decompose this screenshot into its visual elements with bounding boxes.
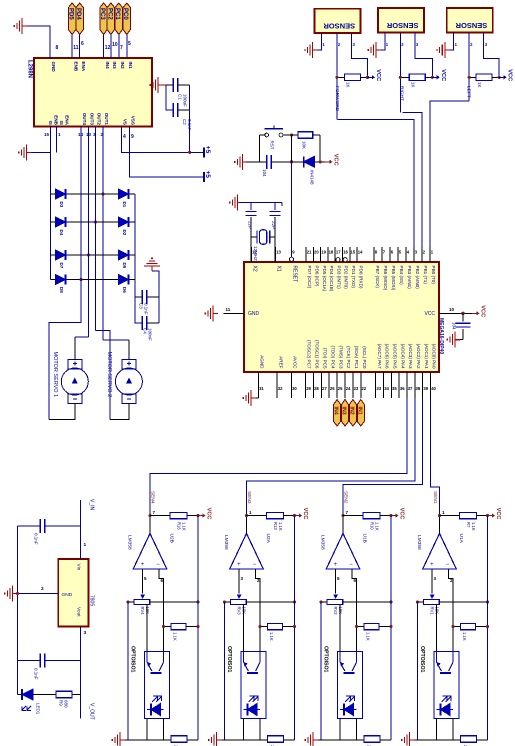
pull-up resistor R13 1.1K: [247, 515, 267, 517]
svg-text:D5: D5: [122, 263, 127, 269]
svg-text:D1: D1: [122, 202, 127, 208]
MCU pin 36 (ADC4) PA4: [398, 372, 400, 398]
opto leads channel 1: [146, 719, 148, 740]
svg-text:PC0: PC0: [122, 8, 128, 20]
MCU pin 7 PB6 (MISO): [381, 247, 383, 262]
MCU pin 3 PB2 (AIN0): [413, 247, 415, 262]
svg-text:OUT3: OUT3: [90, 113, 95, 126]
svg-text:6: 6: [391, 250, 394, 255]
svg-text:PD4: PD4: [75, 8, 81, 20]
svg-text:(ADC7) PA7: (ADC7) PA7: [377, 344, 382, 369]
svg-text:(ADC5) PA5: (ADC5) PA5: [393, 344, 398, 369]
svg-text:(TDI) PC5: (TDI) PC5: [323, 348, 328, 369]
svg-text:2: 2: [401, 42, 404, 47]
svg-text:(ADC2) PA2: (ADC2) PA2: [416, 344, 421, 369]
MCU pin 21 PD7 (OC2): [305, 247, 307, 262]
svg-text:PB5 (MOSI): PB5 (MOSI): [391, 266, 396, 291]
svg-text:R16: R16: [177, 522, 182, 530]
motor driver U? L298N body: [34, 58, 152, 127]
feedback resistor 1.1K channel 3: [357, 626, 365, 628]
svg-text:VCC: VCC: [507, 69, 513, 81]
input capacitor 0.1nF: [45, 525, 81, 527]
svg-text:3: 3: [416, 42, 419, 47]
wire pot to opto channel 4: [436, 604, 438, 651]
junction row 1: [101, 192, 104, 195]
diode D8: [56, 275, 66, 285]
svg-text:1: 1: [442, 510, 445, 515]
svg-text:12: 12: [105, 45, 111, 51]
flag IN2 at PC1: [349, 400, 356, 427]
bottom wire channel 1: [123, 739, 171, 741]
MCU pin 18 PD4 (OC1B): [327, 247, 329, 262]
wire IS ENB pin 15 to ground: [32, 151, 51, 153]
svg-text:3: 3: [353, 42, 356, 47]
pull-up resistor R16 1.1K: [150, 515, 170, 517]
svg-text:AVCC: AVCC: [293, 356, 298, 369]
svg-text:VCC: VCC: [206, 508, 212, 520]
svg-text:17: 17: [336, 250, 341, 255]
MCU pin 14 PD0 (RXD): [356, 247, 358, 262]
svg-text:GND: GND: [248, 311, 260, 317]
wire PD4 to ENA pin 6: [79, 35, 81, 59]
svg-text:2: 2: [423, 250, 426, 255]
regulator 7805 body: [58, 559, 88, 627]
wire diode row 2: [51, 221, 136, 223]
op-amp U2B LM358: [133, 533, 167, 569]
MCU pin 37 (ADC3) PA3: [406, 372, 408, 398]
minus input wire channel 1: [159, 569, 164, 651]
svg-text:RIGHT: RIGHT: [399, 86, 405, 101]
capacitor 22P at X2: [250, 203, 252, 210]
wire OUT4 vertical: [80, 127, 82, 280]
svg-text:1K: 1K: [346, 82, 351, 88]
svg-text:4: 4: [123, 134, 126, 140]
op-amp U1B LM358: [326, 533, 360, 569]
SENSOR1 pin3 wire to VCC node: [352, 33, 368, 77]
svg-text:MOTOR SERVO 1: MOTOR SERVO 1: [52, 352, 58, 398]
MCU pin 8 PB7 (SCK): [373, 247, 375, 262]
wire OUT4 loop to motor1 minus: [49, 280, 81, 420]
left rail channel 3: [320, 602, 322, 740]
SENSOR3 pin2 output wire: [468, 32, 470, 101]
right rail channel 1: [197, 516, 199, 740]
svg-text:LM358: LM358: [223, 535, 229, 550]
svg-text:PC1: PC1: [114, 8, 120, 20]
svg-text:RV2: RV2: [333, 607, 338, 616]
diode D1: [119, 189, 129, 199]
opto sensor OPTOBIO1 channel 4: [434, 651, 459, 718]
opto leads channel 4: [436, 719, 438, 740]
wire C1/C2 right rail down to +5 node: [189, 85, 191, 152]
svg-text:OUT1: OUT1: [104, 113, 109, 126]
pull-up resistor 1K SENSOR2: [400, 76, 409, 78]
junction row 4: [79, 278, 82, 281]
pull-up resistor R10 1.1K: [343, 515, 363, 517]
power +5 arrow (VSS): [204, 171, 211, 183]
svg-text:28: 28: [314, 386, 319, 391]
svg-text:MOTOR SERVO 2: MOTOR SERVO 2: [106, 352, 112, 398]
svg-text:(TOSC2) PC7: (TOSC2) PC7: [307, 340, 312, 369]
svg-text:−: −: [446, 562, 450, 568]
svg-text:PD6 (ICP): PD6 (ICP): [315, 266, 320, 287]
svg-text:VS: VS: [123, 119, 128, 125]
svg-text:0.1nF: 0.1nF: [34, 668, 39, 680]
MCU pin 17 PD3 (INT1): [334, 247, 336, 262]
wire PC3 to IN4 pin 12: [103, 35, 105, 59]
wire VS pin 4 to +5: [122, 127, 205, 153]
svg-text:24: 24: [346, 386, 351, 391]
svg-text:7805: 7805: [89, 595, 95, 606]
wire ground to C1/C2 left node: [163, 84, 166, 86]
wire PC1 to IN2 pin 7: [118, 35, 120, 59]
svg-text:35: 35: [392, 386, 397, 391]
svg-text:6: 6: [81, 41, 84, 47]
svg-text:2: 2: [41, 586, 44, 592]
svg-text:SEN4: SEN4: [150, 491, 156, 504]
svg-text:ENB: ENB: [73, 62, 78, 72]
ground at reset cap: [235, 154, 248, 170]
ground channel 4: [402, 732, 415, 746]
MCU pin 34 (ADC6) PA6: [383, 372, 385, 398]
svg-text:LED1: LED1: [36, 703, 41, 715]
svg-text:12MHZ: 12MHZ: [253, 246, 258, 261]
svg-text:Vout: Vout: [76, 607, 82, 617]
wire OUT3 vertical: [88, 127, 90, 338]
trimmer wires channel 2: [225, 601, 231, 603]
svg-text:OPTOISO1: OPTOISO1: [419, 646, 425, 673]
wire PC2 to IN3 pin 10: [110, 35, 112, 59]
ground at MCU AGND pin 31: [256, 397, 258, 399]
MCU pin 33 (ADC7) PA7: [375, 372, 377, 398]
svg-text:−: −: [349, 562, 353, 568]
connector flag PC2: [107, 3, 114, 35]
MCU pin 13 X1: [275, 247, 277, 262]
sensor module SENSOR1 body: [315, 9, 361, 33]
capacitor C3 0.1nF: [135, 296, 142, 298]
svg-text:RST: RST: [270, 141, 275, 150]
svg-text:(ADC1) PA1: (ADC1) PA1: [424, 344, 429, 369]
svg-text:C2: C2: [182, 119, 187, 125]
wire OUT2 loop to motor2 minus: [96, 330, 111, 419]
microcontroller U? MEGA16-DIP40 body: [244, 262, 439, 372]
svg-text:IN4148: IN4148: [309, 170, 314, 185]
minus input wire channel 3: [352, 569, 357, 651]
ground at crystal caps: [230, 195, 243, 211]
svg-text:27: 27: [322, 386, 327, 391]
svg-text:(ADC3) PA3: (ADC3) PA3: [408, 344, 413, 369]
bottom wire channel 2: [220, 739, 268, 741]
svg-text:ENB: ENB: [54, 115, 59, 125]
svg-text:16: 16: [343, 250, 348, 255]
svg-text:VCC: VCC: [333, 154, 339, 166]
MCU pin 35 (ADC5) PA5: [390, 372, 392, 398]
diode matrix left bus wire: [50, 152, 52, 279]
svg-text:−: −: [156, 562, 160, 568]
SENSOR3 pin1 wire to ground: [450, 32, 454, 50]
op-amp U1A LM358: [423, 533, 457, 569]
svg-text:LEFT: LEFT: [466, 86, 472, 98]
svg-text:IN3: IN3: [112, 62, 117, 70]
op-amp U2A LM358: [230, 533, 264, 569]
right rail channel 3: [390, 516, 392, 740]
svg-text:33: 33: [376, 386, 381, 391]
opto leads channel 3: [339, 719, 341, 740]
left rail channel 4: [417, 602, 419, 740]
diode D2: [119, 217, 129, 227]
svg-text:D3: D3: [59, 202, 64, 208]
svg-text:37: 37: [408, 386, 413, 391]
MCU pin 2 PB1 (T1): [421, 247, 423, 262]
opto sensor OPTOBIO1 channel 1: [145, 651, 170, 718]
svg-text:36: 36: [400, 386, 405, 391]
minus input wire channel 2: [255, 569, 260, 651]
svg-text:1: 1: [84, 542, 87, 548]
svg-text:IS: IS: [59, 121, 64, 125]
svg-text:26: 26: [330, 386, 335, 391]
svg-text:104: 104: [452, 322, 457, 330]
svg-text:38: 38: [416, 386, 421, 391]
svg-text:7: 7: [153, 510, 156, 515]
svg-text:PC3: PC3: [99, 8, 105, 20]
svg-text:RESET: RESET: [292, 266, 298, 283]
power LED1: [18, 694, 23, 696]
svg-text:13: 13: [86, 132, 92, 137]
wire PD5 to ENB pin 11: [71, 35, 73, 59]
svg-text:IS: IS: [48, 121, 53, 125]
port V_IN: [80, 500, 82, 559]
svg-text:1K: 1K: [410, 82, 415, 88]
power VCC arrow channel 3: [391, 508, 405, 520]
svg-text:U1A: U1A: [458, 534, 464, 544]
svg-text:680: 680: [64, 700, 69, 708]
power VCC arrow SENSOR1: [368, 69, 382, 81]
diode matrix right bus wire: [134, 194, 136, 297]
svg-text:22P: 22P: [271, 221, 276, 229]
svg-text:PB4 (SS): PB4 (SS): [399, 266, 404, 286]
svg-text:25: 25: [338, 386, 343, 391]
svg-text:L298N: L298N: [27, 60, 33, 78]
svg-text:C4: C4: [143, 328, 148, 334]
pull-up resistor 1K SENSOR3: [469, 76, 476, 78]
svg-text:VCC: VCC: [302, 508, 308, 520]
wire pot to opto channel 1: [146, 604, 148, 651]
bottom wire channel 3: [316, 739, 364, 741]
wire output to node channel 2: [246, 516, 248, 534]
wire MCU PA to channel 3: [343, 398, 423, 516]
wire OUT1 to motor2 plus: [103, 339, 129, 341]
svg-text:LM358: LM358: [127, 535, 133, 550]
plus input wire channel 2: [238, 569, 240, 594]
svg-text:−: −: [253, 562, 257, 568]
MCU pin 39 (ADC1) PA1: [422, 372, 424, 398]
feedback resistor 1.1K channel 4: [453, 626, 461, 628]
svg-text:3: 3: [84, 630, 87, 636]
svg-text:VCC: VCC: [480, 305, 486, 317]
capacitor C? 104 at MCU VCC: [461, 312, 464, 315]
svg-text:GND: GND: [62, 592, 73, 598]
wire output to node channel 3: [342, 516, 344, 534]
diode D4: [56, 217, 66, 227]
svg-text:+: +: [430, 562, 434, 568]
svg-text:10: 10: [112, 42, 118, 48]
svg-text:OPTOISO1: OPTOISO1: [130, 646, 136, 673]
svg-text:20: 20: [314, 250, 319, 255]
svg-text:10K: 10K: [301, 141, 306, 149]
svg-text:3: 3: [485, 42, 488, 47]
wire output to node channel 1: [149, 516, 151, 534]
svg-text:GND: GND: [51, 62, 56, 73]
svg-text:+: +: [334, 562, 338, 568]
wire MCU PA to channel 4: [431, 398, 440, 516]
minus input wire channel 4: [448, 569, 453, 651]
svg-text:(ADC4) PA4: (ADC4) PA4: [400, 344, 405, 369]
svg-text:X1: X1: [276, 266, 282, 272]
ground at L298N GND pin 8: [14, 18, 27, 34]
junction row 2: [94, 220, 97, 223]
svg-text:1: 1: [249, 510, 252, 515]
svg-text:ENA: ENA: [65, 115, 70, 125]
svg-text:1.1K: 1.1K: [269, 632, 274, 641]
svg-text:23: 23: [354, 386, 359, 391]
svg-text:3: 3: [241, 576, 244, 581]
junction row 3: [87, 253, 90, 256]
svg-text:1.1K: 1.1K: [462, 632, 467, 641]
wire ground to C3/C4 right rail: [152, 271, 159, 323]
SENSOR1 pin2 output wire: [336, 33, 338, 119]
wire MCU VCC pin 10 to VCC: [439, 312, 472, 314]
trimmer RV4 10K: [140, 594, 145, 599]
MCU pin 16 PD2 (INT0): [342, 247, 344, 262]
MCU pin 15 PD1 (TXD): [349, 247, 351, 262]
MCU pin 24 (TCK) PC2: [344, 372, 346, 398]
svg-text:14: 14: [358, 250, 363, 255]
svg-text:(TOSC1) PC6: (TOSC1) PC6: [315, 340, 320, 369]
right rail channel 4: [487, 516, 489, 740]
svg-text:3: 3: [434, 576, 437, 581]
svg-text:22P: 22P: [247, 221, 252, 229]
power +5 arrow (VS): [204, 146, 211, 158]
svg-text:MEGA16-DIP40: MEGA16-DIP40: [438, 318, 444, 354]
power VCC arrow channel 2: [295, 508, 309, 520]
wire diode row 4: [51, 279, 136, 281]
wire FORWORD to PB2: [338, 119, 415, 247]
wire OUT3 to motor1 plus: [75, 336, 89, 338]
svg-text:(ADC0) PA0: (ADC0) PA0: [432, 344, 437, 369]
svg-text:1K: 1K: [477, 82, 482, 88]
wire reset bottom path: [246, 161, 267, 163]
ground at SENSOR3: [437, 42, 450, 58]
svg-text:VSS: VSS: [131, 116, 136, 125]
svg-text:(SDA) PC1: (SDA) PC1: [354, 346, 359, 369]
svg-text:D6: D6: [122, 287, 127, 293]
ground at 7805 GND pin 2: [18, 593, 59, 595]
wire pot to opto channel 2: [243, 604, 245, 651]
ground channel 3: [305, 732, 318, 746]
trimmer RV2 10K: [333, 594, 338, 599]
wire OUT2 vertical: [95, 127, 97, 331]
svg-text:PB0 (T0): PB0 (T0): [431, 266, 436, 285]
svg-text:V_IN: V_IN: [89, 499, 95, 511]
MCU pin 19 PD5 (OC1A): [320, 247, 322, 262]
svg-text:VCC: VCC: [440, 69, 446, 81]
LED series resistor channel 3: [364, 736, 380, 742]
SENSOR2 pin1 wire to ground: [381, 32, 385, 50]
wire ground rail to caps: [240, 202, 282, 204]
svg-text:1.1K: 1.1K: [471, 522, 476, 531]
diode D6: [119, 275, 129, 285]
svg-text:PD5 (OC1A): PD5 (OC1A): [322, 266, 327, 292]
svg-text:+: +: [237, 562, 241, 568]
svg-text:PC2: PC2: [106, 8, 112, 20]
MCU pin 5 PB4 (SS): [397, 247, 399, 262]
svg-text:U2B: U2B: [169, 534, 175, 543]
svg-text:IN4: IN4: [333, 407, 339, 415]
svg-text:R9: R9: [59, 700, 64, 706]
svg-text:PB6 (MISO): PB6 (MISO): [383, 266, 388, 291]
svg-text:7: 7: [346, 510, 349, 515]
left rail regulator: [17, 526, 19, 695]
ground channel 1: [112, 732, 125, 746]
svg-text:+5: +5: [204, 171, 211, 179]
diode IN4148: [304, 156, 315, 167]
svg-text:R7: R7: [466, 522, 471, 528]
svg-text:PD0 (RXD): PD0 (RXD): [358, 266, 363, 289]
capacitor 104 reset: [267, 155, 271, 169]
MCU pin 28 (TOSC1) PC6: [312, 372, 314, 398]
ground at L298N sense pins: [19, 144, 32, 160]
sensor module SENSOR2 body: [378, 8, 424, 32]
ground at MCU GND pin 11: [224, 313, 245, 315]
ground at SENSOR1: [305, 42, 318, 58]
svg-text:ENA: ENA: [81, 62, 86, 72]
svg-text:AREF: AREF: [278, 356, 283, 368]
flag IN3 at PC2: [342, 400, 349, 427]
svg-text:SEN3: SEN3: [246, 491, 252, 504]
svg-text:D7: D7: [59, 263, 64, 269]
svg-text:10: 10: [449, 307, 455, 312]
svg-text:PD4 (OC1B): PD4 (OC1B): [329, 266, 334, 292]
svg-text:5: 5: [399, 250, 402, 255]
svg-text:RV1: RV1: [430, 607, 435, 616]
svg-text:PD5: PD5: [68, 8, 74, 20]
push button switch RST: [259, 135, 261, 162]
capacitor C4 100nF: [135, 297, 142, 323]
output capacitor 0.1nF: [18, 660, 41, 662]
svg-text:D2: D2: [122, 230, 127, 236]
svg-text:C3: C3: [139, 303, 144, 309]
svg-text:(TCK) PC2: (TCK) PC2: [346, 346, 351, 369]
svg-text:31: 31: [259, 386, 264, 391]
svg-text:1: 1: [455, 42, 458, 47]
SENSOR1 pin1 wire to ground: [318, 33, 322, 50]
svg-text:1: 1: [386, 42, 389, 47]
svg-text:3: 3: [415, 250, 418, 255]
wire PC0 to IN1 pin 5: [126, 35, 128, 59]
svg-text:VCC: VCC: [375, 69, 381, 81]
MCU pin 1 PB0 (T0): [429, 247, 431, 262]
bottom wire channel 4: [413, 739, 461, 741]
SENSOR3 pin3 wire to VCC node: [484, 32, 499, 77]
MCU pin 29 (TOSC2) PC7: [305, 372, 307, 398]
connector flag PD4: [76, 3, 83, 35]
power VCC arrow channel 1: [198, 508, 212, 520]
connector flag PC3: [100, 3, 107, 35]
svg-text:IN3: IN3: [341, 407, 347, 415]
LED series resistor channel 4: [461, 736, 477, 742]
svg-text:IN1: IN1: [128, 62, 133, 70]
svg-text:5: 5: [144, 576, 147, 581]
trimmer RV3 10K: [237, 594, 242, 599]
